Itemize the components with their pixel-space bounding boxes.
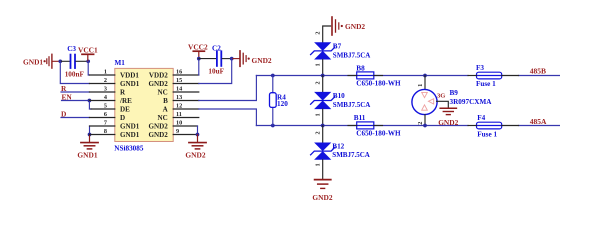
net label 485A bbox=[530, 117, 547, 126]
svg-text:13: 13 bbox=[176, 94, 182, 101]
svg-text:GND1: GND1 bbox=[120, 123, 140, 131]
wire B7 to top bus bbox=[322, 60, 324, 76]
node: GND1/C3 junction bbox=[58, 59, 62, 63]
pin 2 GND1 bbox=[89, 77, 139, 88]
svg-text:10uF: 10uF bbox=[208, 67, 224, 75]
pin 8 GND1 bbox=[90, 128, 140, 139]
wire pin16 to VCC2 bbox=[198, 59, 200, 75]
fuse F4 bbox=[477, 114, 502, 139]
svg-text:12: 12 bbox=[176, 103, 182, 110]
svg-text:5: 5 bbox=[104, 103, 107, 110]
node: C3/VCC1 junction bbox=[86, 59, 90, 63]
svg-text:GND2: GND2 bbox=[438, 118, 458, 127]
wire top bus to B10 bbox=[322, 76, 324, 92]
ground GND1 (below chip left) bbox=[77, 135, 98, 160]
svg-text:GND1: GND1 bbox=[77, 150, 97, 159]
value 10uF bbox=[208, 67, 224, 75]
power ground GND2 (top of TVS chain) bbox=[323, 17, 366, 42]
wire top bus B right of F3 bbox=[519, 75, 560, 77]
ground GND2 (B9 electrode) bbox=[438, 108, 458, 127]
svg-text:C650-180-WH: C650-180-WH bbox=[356, 80, 401, 88]
svg-text:B9: B9 bbox=[450, 89, 459, 97]
svg-text:VDD2: VDD2 bbox=[149, 72, 168, 80]
wire stub B8 left bbox=[348, 75, 357, 77]
wire stub B11 right bbox=[374, 125, 383, 127]
pin 4 /RE bbox=[89, 94, 132, 105]
wire C3 left bbox=[60, 60, 69, 62]
wire B9 bottom to bus bbox=[424, 115, 426, 126]
wire stub F4 right bbox=[502, 125, 519, 127]
pin label 2 of B9 bbox=[417, 122, 424, 125]
net label EN bbox=[62, 93, 90, 102]
resistor R4 bbox=[270, 93, 289, 109]
pin label 1 of B10 bbox=[315, 113, 322, 116]
svg-text:R: R bbox=[120, 89, 126, 97]
svg-text:GND1: GND1 bbox=[120, 80, 140, 88]
svg-text:DE: DE bbox=[120, 106, 130, 114]
node: C2/GND2 junction bbox=[230, 57, 234, 61]
pin 14 NC bbox=[158, 86, 199, 97]
pin 11 NC bbox=[158, 111, 199, 122]
pin 7 GND1 bbox=[90, 120, 140, 131]
svg-text:GND2: GND2 bbox=[148, 123, 168, 131]
TVS diode B12 bbox=[311, 143, 370, 160]
svg-text:GND2: GND2 bbox=[148, 131, 168, 139]
fuse F3 bbox=[476, 64, 502, 88]
wire bottom bus A bbox=[256, 125, 468, 127]
svg-text:GND2: GND2 bbox=[185, 150, 205, 159]
gas discharge tube B9 bbox=[412, 89, 492, 115]
wire pins 7-8 join bbox=[89, 126, 91, 135]
svg-text:D: D bbox=[120, 114, 125, 122]
pin label 2 of B7 bbox=[315, 32, 322, 35]
svg-text:GND2: GND2 bbox=[148, 80, 168, 88]
svg-text:3R097CXMA: 3R097CXMA bbox=[450, 98, 493, 106]
power VCC1 bbox=[78, 46, 98, 62]
svg-text:4: 4 bbox=[104, 94, 107, 101]
svg-text:NSi83085: NSi83085 bbox=[114, 145, 144, 153]
wire bus to B9 top bbox=[424, 76, 426, 90]
wire C2 right bbox=[222, 58, 232, 60]
pin 3 R bbox=[89, 86, 126, 97]
value 100nF bbox=[65, 70, 85, 78]
svg-text:2: 2 bbox=[315, 81, 322, 84]
pin 13 B bbox=[163, 94, 199, 105]
wire B10 to bottom bus bbox=[322, 109, 324, 125]
TVS diode B7 bbox=[311, 42, 371, 59]
svg-text:VCC1: VCC1 bbox=[78, 46, 98, 55]
svg-text:B7: B7 bbox=[333, 42, 342, 50]
ground GND2 (bottom of TVS chain) bbox=[312, 180, 332, 202]
svg-text:C650-180-WH: C650-180-WH bbox=[356, 130, 401, 138]
capacitor C3 bbox=[71, 55, 76, 68]
pin 16 VDD2 bbox=[149, 69, 199, 80]
svg-text:B11: B11 bbox=[354, 114, 366, 122]
svg-text:B: B bbox=[163, 97, 168, 105]
net label D bbox=[61, 109, 89, 118]
svg-text:2: 2 bbox=[417, 122, 424, 125]
svg-text:C3: C3 bbox=[67, 45, 76, 53]
wire bottom bus to B12 bbox=[322, 126, 324, 143]
pin 9 GND2 bbox=[148, 128, 197, 139]
TVS diode B10 bbox=[311, 92, 371, 109]
svg-text:1: 1 bbox=[315, 113, 322, 116]
wire EN to pin 5 bbox=[89, 101, 91, 110]
pin label 1 of B7 bbox=[315, 63, 322, 66]
svg-text:100nF: 100nF bbox=[65, 70, 85, 78]
svg-text:1: 1 bbox=[104, 69, 107, 76]
svg-text:SMBJ7.5CA: SMBJ7.5CA bbox=[333, 101, 371, 109]
svg-text:VDD1: VDD1 bbox=[120, 72, 139, 80]
svg-text:A: A bbox=[163, 106, 169, 114]
svg-text:SMBJ7.5CA: SMBJ7.5CA bbox=[332, 151, 370, 159]
node: pin9/10 junction bbox=[196, 133, 200, 137]
svg-text:Fuse 1: Fuse 1 bbox=[477, 131, 497, 139]
node: B9 bottom junction bbox=[423, 124, 427, 128]
wire stub F4 left bbox=[468, 125, 477, 127]
wire stub F3 right bbox=[502, 75, 519, 77]
svg-text:NC: NC bbox=[158, 89, 168, 97]
node: TVS top bus junction bbox=[321, 74, 325, 78]
wire stub F3 left bbox=[468, 75, 477, 77]
svg-text:NC: NC bbox=[158, 114, 168, 122]
pin 15 GND2 bbox=[148, 77, 198, 88]
pin label 1 of B12 bbox=[315, 163, 322, 166]
wire VCC1 node to pin 1 bbox=[88, 61, 89, 75]
svg-text:8: 8 bbox=[104, 128, 107, 135]
node: VCC2/C2 junction bbox=[197, 57, 201, 61]
svg-text:1: 1 bbox=[315, 63, 322, 66]
pin 1 VDD1 bbox=[89, 69, 139, 80]
wire GND1 node to pin 2 bbox=[60, 61, 89, 83]
svg-text:B12: B12 bbox=[332, 143, 344, 151]
power VCC2 bbox=[188, 43, 208, 59]
svg-text:485A: 485A bbox=[530, 117, 547, 126]
svg-text:1: 1 bbox=[417, 84, 424, 87]
svg-text:6: 6 bbox=[104, 111, 107, 118]
svg-text:485B: 485B bbox=[530, 67, 546, 76]
pin 6 D bbox=[89, 111, 125, 122]
svg-text:VCC2: VCC2 bbox=[188, 43, 208, 52]
pin label 1 of B9 bbox=[417, 84, 424, 87]
pin label 2 of B12 bbox=[315, 131, 322, 134]
svg-text:GND2: GND2 bbox=[252, 56, 272, 65]
svg-text:14: 14 bbox=[176, 86, 182, 93]
wire stub B8 right bbox=[374, 75, 383, 77]
svg-text:M1: M1 bbox=[115, 59, 126, 67]
svg-text:SMBJ7.5CA: SMBJ7.5CA bbox=[333, 52, 371, 60]
svg-text:3: 3 bbox=[104, 86, 107, 93]
pin 12 A bbox=[163, 103, 199, 114]
svg-text:120: 120 bbox=[277, 100, 288, 108]
svg-text:2: 2 bbox=[315, 32, 322, 35]
svg-text:7: 7 bbox=[104, 120, 107, 127]
svg-text:/RE: /RE bbox=[119, 97, 132, 105]
wire pins 9-10 join bbox=[197, 126, 199, 135]
PTC B11 bbox=[354, 114, 401, 138]
wire C3 right bbox=[76, 60, 88, 62]
node: pin7/8 junction bbox=[88, 133, 92, 137]
node: R4 top junction bbox=[271, 74, 275, 78]
svg-text:9: 9 bbox=[176, 128, 179, 135]
capacitor C2 bbox=[217, 51, 221, 66]
net label R bbox=[61, 84, 89, 93]
svg-text:3G: 3G bbox=[437, 93, 445, 100]
PTC B8 bbox=[356, 65, 401, 88]
ground GND2 (below chip right) bbox=[185, 135, 206, 160]
wire bottom bus A right of F4 bbox=[519, 125, 560, 127]
label C2 bbox=[212, 45, 221, 53]
svg-text:GND1: GND1 bbox=[120, 131, 140, 139]
wire stub B11 left bbox=[348, 125, 357, 127]
pin 10 GND2 bbox=[148, 120, 197, 131]
wire pin13 B to top bus bbox=[199, 76, 257, 101]
wire B9 center electrode to ground bbox=[437, 101, 449, 107]
svg-text:GND2: GND2 bbox=[312, 193, 332, 202]
pin 5 DE bbox=[91, 103, 130, 114]
node: R4 bottom junction bbox=[271, 124, 275, 128]
svg-text:B10: B10 bbox=[333, 92, 345, 100]
svg-text:Fuse 1: Fuse 1 bbox=[476, 80, 496, 88]
svg-text:F3: F3 bbox=[476, 64, 484, 72]
power ground GND2 (beside C2) bbox=[232, 51, 272, 66]
wire B12 to ground bbox=[322, 160, 324, 179]
wire R4 bottom bbox=[272, 107, 274, 125]
svg-text:GND2: GND2 bbox=[345, 22, 365, 31]
svg-text:10: 10 bbox=[176, 120, 182, 127]
node: TVS bottom bus junction bbox=[321, 124, 325, 128]
svg-text:2: 2 bbox=[315, 131, 322, 134]
power ground GND1 (top-left) bbox=[23, 54, 60, 68]
pin label 2 of B10 bbox=[315, 81, 322, 84]
svg-text:F4: F4 bbox=[477, 114, 485, 122]
svg-text:1: 1 bbox=[315, 163, 322, 166]
svg-text:11: 11 bbox=[176, 111, 182, 118]
label C3 bbox=[67, 45, 76, 53]
wire R4 top bbox=[272, 76, 274, 93]
svg-text:C2: C2 bbox=[212, 45, 221, 53]
pin 3G label bbox=[437, 93, 445, 100]
svg-text:15: 15 bbox=[176, 77, 182, 84]
svg-text:GND1: GND1 bbox=[23, 57, 43, 66]
wire pin15 to C2/GND2 node bbox=[199, 59, 232, 84]
net label 485B bbox=[530, 67, 546, 76]
wire top bus B bbox=[256, 75, 468, 77]
node: B9 top junction bbox=[423, 74, 427, 78]
IC U1 NSi83085 body bbox=[114, 59, 173, 152]
wire pin12 A to bottom bus bbox=[199, 109, 257, 126]
svg-text:16: 16 bbox=[176, 69, 182, 76]
node: EN junction bbox=[88, 99, 92, 103]
svg-text:2: 2 bbox=[104, 77, 107, 84]
wire C2 left bbox=[199, 58, 216, 60]
